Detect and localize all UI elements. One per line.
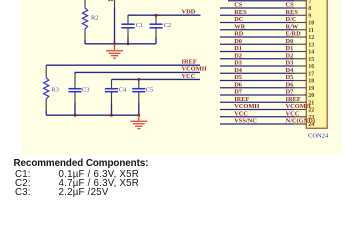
pin 23 stub (294, 116, 306, 118)
pin 15 stub (294, 58, 306, 60)
svg-text:D2: D2 (234, 52, 242, 59)
svg-text:R2: R2 (91, 14, 98, 21)
capacitor C2 (149, 15, 162, 44)
schematic sheet background (22, 0, 343, 156)
svg-text:D3: D3 (234, 60, 242, 67)
svg-text:16: 16 (308, 64, 314, 70)
svg-text:9: 9 (308, 13, 311, 19)
svg-text:19: 19 (308, 86, 314, 92)
svg-text:D4: D4 (286, 67, 295, 74)
pin 17 stub (294, 72, 306, 74)
wire net row pin 15 (220, 58, 294, 60)
pin 8 stub (294, 7, 306, 9)
connector CON24 body (306, 0, 327, 128)
svg-text:D7: D7 (234, 89, 243, 96)
wire VCC rail (112, 78, 201, 80)
wire net row pin 20 (220, 94, 294, 96)
junction C5 bottom (137, 114, 140, 117)
capacitor C1 (121, 15, 134, 44)
svg-text:D7: D7 (286, 89, 295, 96)
svg-text:D0: D0 (234, 38, 242, 45)
svg-text:CS: CS (286, 2, 295, 9)
pin 14 stub (294, 51, 306, 53)
junction C3 bottom (74, 114, 77, 117)
svg-text:VCC: VCC (182, 73, 196, 80)
pin 10 stub (294, 22, 306, 24)
svg-text:20: 20 (308, 93, 314, 99)
wire bottom rail (top circuit) (85, 43, 156, 45)
pin 7 stub (294, 0, 306, 2)
wire net row pin 14 (220, 51, 294, 53)
svg-text:7: 7 (308, 0, 311, 5)
svg-text:D1: D1 (234, 45, 242, 52)
svg-text:VCC: VCC (286, 110, 300, 117)
svg-text:22: 22 (308, 108, 314, 114)
heading: Recommended Components (14, 158, 149, 169)
pin 13 stub (294, 43, 306, 45)
pin 16 stub (294, 65, 306, 67)
wire net row pin 12 (220, 36, 294, 38)
svg-text:24: 24 (308, 122, 314, 128)
junction C5 top (137, 78, 140, 81)
svg-text:C4: C4 (119, 86, 127, 93)
svg-text:IREF: IREF (182, 58, 197, 65)
wire net row pin 19 (220, 87, 294, 89)
pin 24 stub (294, 123, 306, 125)
svg-text:17: 17 (308, 71, 314, 77)
pin 18 stub (294, 80, 306, 82)
wire bottom rail (circuit 2) (46, 114, 139, 116)
wire net row pin 7 (228, 0, 294, 2)
svg-text:RES: RES (286, 9, 299, 16)
junction C1 bottom (127, 42, 130, 45)
wire VDD vertical feed (pin stub at top, cut) (114, 0, 116, 44)
svg-text:IREF: IREF (286, 96, 301, 103)
pin 22 stub (294, 109, 306, 111)
svg-text:CON24: CON24 (308, 133, 329, 140)
ground (circuit 2) (130, 115, 147, 128)
svg-text:VCOMH: VCOMH (182, 66, 207, 73)
pin 20 stub (294, 94, 306, 96)
svg-text:CS: CS (234, 2, 243, 9)
pin 9 stub (294, 14, 306, 16)
wire net row pin 21 (220, 101, 294, 103)
svg-text:R3: R3 (52, 86, 59, 93)
capacitor C4 (105, 79, 118, 115)
svg-text:D5: D5 (234, 74, 242, 81)
net label sliver (cut at top) (108, 0, 112, 1)
junction C2 top (155, 14, 158, 17)
wire net row pin 22 (220, 109, 294, 111)
svg-text:D0: D0 (286, 38, 294, 45)
svg-text:10: 10 (308, 21, 314, 27)
wire net row pin 13 (220, 43, 294, 45)
junction ground tap (113, 42, 116, 45)
svg-text:VCOMH: VCOMH (234, 103, 259, 110)
svg-text:DC: DC (234, 16, 244, 23)
pin 12 stub (294, 36, 306, 38)
wire net row pin 9 (220, 14, 294, 16)
svg-text:D6: D6 (234, 81, 243, 88)
wire net row pin 11 (220, 29, 294, 31)
svg-text:D2: D2 (286, 52, 294, 59)
svg-text:13: 13 (308, 42, 314, 48)
svg-text:D1: D1 (286, 45, 294, 52)
svg-text:VSS/NC: VSS/NC (234, 118, 257, 125)
svg-text:D3: D3 (286, 60, 294, 67)
svg-text:RD: RD (234, 31, 244, 38)
svg-text:D/C: D/C (286, 16, 297, 23)
wire VCOMH rail (75, 71, 200, 73)
wire net row pin 18 (220, 80, 294, 82)
resistor R3 (44, 65, 49, 115)
svg-text:WR: WR (234, 23, 245, 30)
wire IREF rail (46, 64, 200, 66)
wire net row pin 17 (220, 72, 294, 74)
wire net row pin 8 (220, 7, 294, 9)
note C1 value (15, 169, 31, 180)
svg-text:15: 15 (308, 57, 314, 63)
svg-text:VDD: VDD (182, 8, 196, 15)
svg-text:R/W: R/W (286, 23, 299, 30)
svg-text:VCC: VCC (234, 110, 248, 117)
wire net row pin 16 (220, 65, 294, 67)
svg-text:14: 14 (308, 50, 314, 56)
wire net row pin 23 (220, 116, 294, 118)
svg-text:IREF: IREF (234, 96, 249, 103)
resistor R2 (82, 0, 87, 44)
capacitor C5 (132, 79, 145, 115)
svg-text:D6: D6 (286, 81, 295, 88)
svg-text:D4: D4 (234, 67, 243, 74)
pin 11 stub (294, 29, 306, 31)
svg-text:C3: C3 (82, 86, 89, 93)
ground (top circuit) (106, 44, 123, 58)
pin 21 stub (294, 101, 306, 103)
note C2 value (15, 178, 31, 189)
svg-text:E/RD: E/RD (286, 31, 302, 38)
wire net row pin 10 (220, 22, 294, 24)
note C3 value (15, 187, 31, 198)
svg-text:D5: D5 (286, 74, 294, 81)
wire net row pin 24 (220, 123, 294, 125)
svg-text:11: 11 (308, 28, 314, 34)
junction C4 bottom (110, 114, 113, 117)
svg-text:RES: RES (234, 9, 247, 16)
svg-text:8: 8 (308, 6, 311, 12)
capacitor C3 (68, 72, 81, 115)
pin 19 stub (294, 87, 306, 89)
svg-text:18: 18 (308, 79, 314, 85)
svg-text:C2: C2 (164, 22, 171, 29)
wire VDD top rail (128, 14, 201, 16)
svg-text:C1: C1 (136, 22, 143, 29)
svg-text:C5: C5 (146, 86, 153, 93)
svg-text:12: 12 (308, 35, 314, 41)
svg-text:VCOMH: VCOMH (286, 103, 311, 110)
